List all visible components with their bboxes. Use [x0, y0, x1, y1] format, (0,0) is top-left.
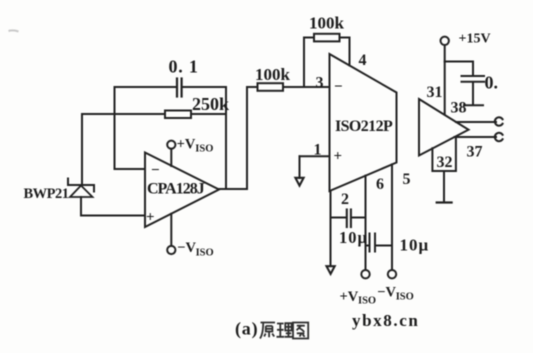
isolation amp U2 ISO212P body — [330, 54, 397, 191]
svg-text:−V: −V — [377, 285, 396, 301]
svg-text:100k: 100k — [255, 65, 291, 84]
svg-text:0. 1: 0. 1 — [169, 57, 199, 77]
wire: feedback top line left — [304, 37, 314, 39]
svg-text:−V: −V — [177, 240, 196, 256]
faint scan mark top left — [9, 30, 19, 31]
terminal output lower circle (open right) — [495, 133, 503, 141]
pin 38 T-bar — [464, 104, 483, 106]
svg-text:+15V: +15V — [459, 32, 491, 47]
terminal -Viso bottom circle — [388, 270, 396, 278]
svg-text:+V: +V — [177, 137, 196, 153]
wire: diode anode down to + input line — [80, 197, 82, 216]
wire: ISO bottom-left corner down — [330, 191, 332, 266]
svg-text:ybx8.cn: ybx8.cn — [352, 311, 419, 330]
wire: -Viso vertical from bottom edge — [170, 214, 172, 246]
caption CJK 原理图 hand-drawn — [260, 323, 308, 339]
svg-text:10μ: 10μ — [339, 228, 368, 247]
wire: +Viso vertical into top edge — [170, 149, 172, 166]
wire: output upper line — [456, 121, 496, 123]
wire: +15V branch to 0.1 cap — [445, 61, 473, 63]
wire: 250k feedback line — [82, 113, 165, 115]
svg-text:31: 31 — [427, 84, 443, 101]
svg-text:ISO212P: ISO212P — [335, 118, 393, 135]
char li — [277, 323, 293, 337]
buffer U3 triangle — [419, 99, 469, 156]
svg-text:(a): (a) — [235, 319, 258, 340]
wire: feedback top line right — [340, 37, 350, 39]
svg-text:2: 2 — [341, 191, 349, 208]
resistor R 100k feedback body — [314, 34, 340, 42]
wire: 0.1 cap feedback top line — [115, 86, 176, 88]
op-amp U1 CPA128J triangle — [145, 153, 219, 228]
terminal +Viso circle — [167, 141, 175, 149]
wire: cap bottom to pin 38 stub — [472, 82, 474, 105]
char yuan — [260, 323, 275, 339]
capacitor C 0.1 plates — [176, 79, 178, 97]
svg-text:CPA128J: CPA128J — [147, 181, 205, 198]
svg-text:37: 37 — [467, 144, 483, 161]
capacitor C2 wires — [331, 217, 346, 219]
wire: ISO feedback left vertical — [303, 38, 305, 88]
wire: 100k input line to ISO pin 3 — [247, 86, 258, 88]
wire: pin 1 horizontal — [300, 155, 330, 157]
wire: pin 1 vertical down — [299, 156, 301, 178]
wire: left vertical from 250k to diode cathode — [81, 114, 83, 185]
pin 32 box below buffer — [432, 137, 456, 171]
svg-text:5: 5 — [403, 171, 411, 188]
svg-text:6: 6 — [376, 176, 384, 193]
svg-text:+: + — [334, 149, 343, 165]
svg-text:−: − — [334, 79, 343, 95]
ground T-bar below 32 — [437, 201, 452, 203]
svg-text:−: − — [151, 163, 160, 179]
svg-text:+V: +V — [340, 289, 359, 305]
ground arrow open V bottom left — [327, 266, 335, 274]
terminal -Viso circle — [167, 246, 175, 254]
resistor R 250k body — [165, 111, 191, 119]
svg-text:ISO: ISO — [195, 144, 213, 155]
svg-text:1: 1 — [314, 142, 322, 159]
diode BWP21 (zener-style bar with hooks) — [68, 184, 94, 186]
wire: - input horizontal to CPA128J — [115, 168, 146, 170]
wire: CPA128J output to the right — [219, 188, 247, 190]
svg-text:250k: 250k — [192, 94, 229, 114]
ground arrow open V below pin 1 — [295, 178, 303, 186]
svg-text:32: 32 — [437, 154, 453, 171]
capacitor C3 10u plates — [369, 234, 371, 252]
svg-text:100k: 100k — [309, 14, 345, 33]
resistor R 100k input body — [258, 83, 284, 91]
terminal +Viso bottom circle — [361, 270, 369, 278]
wire: + input horizontal to CPA128J — [81, 215, 145, 217]
wire: feedback right vertical to pin 4 — [349, 38, 351, 66]
terminal +15V circle — [441, 37, 449, 45]
wire: right feedback vertical to output node — [225, 87, 227, 189]
svg-text:ISO: ISO — [396, 292, 414, 303]
capacitor C2 plates — [346, 210, 348, 228]
wire: output lower line — [455, 136, 497, 138]
svg-text:10μ: 10μ — [400, 236, 430, 255]
wire: from pin 32 box down — [443, 171, 445, 202]
wire: pin 5 vertical down to terminal — [391, 164, 393, 270]
wire: output vertical up to 100k line — [246, 87, 248, 189]
wire: pin 6 vertical down to terminal — [365, 176, 367, 270]
svg-text:0.: 0. — [485, 73, 499, 93]
char tu — [293, 323, 308, 339]
svg-text:3: 3 — [316, 75, 324, 92]
svg-text:4: 4 — [359, 52, 367, 69]
terminal output upper circle (open right) — [495, 117, 503, 125]
svg-text:38: 38 — [451, 100, 467, 117]
capacitor C4 0.1 plates — [462, 75, 485, 77]
svg-text:ISO: ISO — [196, 248, 214, 259]
wire: vertical from 0.1 line down to - input — [114, 87, 116, 169]
svg-text:ISO: ISO — [358, 296, 376, 307]
wire: +15V vertical down to buffer pin 31 — [444, 45, 446, 114]
svg-text:BWP21: BWP21 — [24, 186, 69, 202]
capacitor C3 10u wires — [366, 245, 370, 247]
svg-text:+: + — [146, 210, 155, 226]
